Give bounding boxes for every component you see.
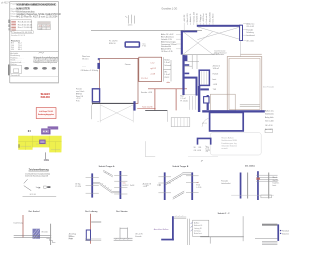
- core wall blue stub 2: [185, 73, 190, 75]
- D3 hatch: [115, 238, 129, 240]
- key plan leader line: [45, 152, 47, 159]
- faint rule under lintel: [188, 156, 218, 158]
- stamp block d: [11, 29, 16, 31]
- D2 left notes: [69, 232, 76, 240]
- svg-text:3.8: 3.8: [47, 26, 50, 28]
- svg-text:201: 201: [198, 147, 201, 149]
- svg-text:UG: UG: [11, 49, 14, 51]
- legend rect filled: [47, 186, 50, 188]
- D5 stub: [209, 237, 211, 244]
- south wall blue long: [202, 110, 265, 112]
- svg-text:+2.12: +2.12: [206, 150, 210, 152]
- D3 column: [120, 228, 128, 239]
- svg-text:VS 12: VS 12: [164, 77, 169, 79]
- middle divider red left: [154, 89, 156, 111]
- east room top line: [240, 53, 261, 55]
- terrace diagonal brace 4: [183, 32, 212, 54]
- svg-text:GK 12.5: GK 12.5: [82, 59, 88, 61]
- D6 bullet notes: [280, 230, 290, 235]
- svg-text:D=18: D=18: [130, 185, 134, 187]
- key plan purple roof bar: [48, 126, 59, 129]
- signature squiggle: [39, 52, 44, 53]
- svg-text:12.4: 12.4: [39, 26, 43, 28]
- middle divider red top: [148, 88, 187, 90]
- D6 floor line: [255, 238, 277, 240]
- index table: [38, 22, 51, 30]
- svg-text:Blech: Blech: [273, 177, 277, 179]
- key plan left tick: [18, 144, 20, 148]
- svg-text:90: 90: [194, 147, 196, 149]
- D5 ground line: [200, 236, 244, 238]
- corridor stair treads: [190, 96, 196, 110]
- stair B wall right blue: [191, 172, 193, 200]
- legend bottom rule: [23, 195, 57, 197]
- terrace floor line: [183, 54, 215, 56]
- D4 right wall: [188, 219, 190, 245]
- svg-text:Daemm.: Daemm.: [273, 182, 280, 184]
- svg-text:Fassade: Fassade: [221, 181, 228, 183]
- purple box inner: [42, 130, 49, 134]
- stamp block b: [11, 24, 16, 26]
- D2 wall red: [90, 214, 92, 244]
- svg-text:NEUBAU EINFAMILIENHAUS MIT EIN: NEUBAU EINFAMILIENHAUS MIT EINLIEGERWOHN…: [16, 3, 56, 6]
- door swing: [202, 118, 209, 126]
- svg-text:T 09: T 09: [213, 89, 216, 91]
- stair B lower flight: [173, 191, 184, 199]
- hall wall blue horizontal: [184, 77, 196, 79]
- center partitions: [163, 57, 171, 81]
- bottom divider: [10, 76, 59, 78]
- room 1 outline: [100, 58, 139, 103]
- window element blue: [125, 42, 139, 47]
- terrace diagonal brace 3: [183, 32, 212, 54]
- detail C wall 1 gray: [247, 173, 249, 199]
- callout side note: [205, 146, 208, 153]
- svg-text:OK +3.16: OK +3.16: [265, 125, 272, 127]
- D4 hatch above: [175, 215, 183, 217]
- key plan internal lines: [18, 136, 61, 153]
- detail C wall 2 gray: [268, 173, 270, 199]
- tiny flag: [201, 160, 203, 161]
- title block frame: [10, 2, 59, 83]
- notes box rows: [194, 222, 203, 235]
- svg-text:2.1 m2: 2.1 m2: [180, 98, 185, 100]
- svg-text:n. 12: n. 12: [150, 62, 154, 64]
- svg-text:Hinweis Balkon:: Hinweis Balkon:: [221, 138, 234, 140]
- red approval box: [36, 108, 56, 119]
- top annotation vertical labels: [184, 12, 215, 22]
- detail C roof lines: [256, 175, 277, 181]
- stair B lower ticks: [175, 193, 182, 198]
- bay window blue: [92, 89, 99, 102]
- svg-text:Konsole: Konsole: [135, 236, 141, 238]
- D2 bottom slab: [85, 239, 101, 241]
- stair A stringer ticks: [102, 183, 111, 190]
- svg-text:+3.18: +3.18: [150, 74, 154, 76]
- right annotation leaders: [243, 24, 246, 41]
- svg-text:FT 01: FT 01: [202, 123, 207, 125]
- flat note box: [12, 31, 34, 34]
- legend rect outline: [44, 186, 47, 188]
- stair B landing ticks: [158, 176, 198, 193]
- svg-text:x: x: [98, 121, 99, 123]
- notes box: [193, 220, 209, 236]
- lintel detail blue U: [198, 138, 211, 144]
- stair wall blue lower: [198, 86, 200, 112]
- stray tick: [146, 184, 149, 186]
- D5 right wall: [242, 216, 244, 241]
- svg-text:B 14: B 14: [196, 185, 200, 187]
- svg-text:+3.18: +3.18: [213, 84, 217, 86]
- detail C right text: [273, 177, 280, 187]
- key plan mark dots: [28, 130, 29, 131]
- svg-text:+2.12: +2.12: [76, 98, 80, 100]
- svg-text:F 05: F 05: [76, 101, 80, 103]
- stair A landing ticks: [86, 175, 128, 194]
- center annotations: [164, 58, 171, 79]
- svg-text:UK +2.95: UK +2.95: [135, 233, 142, 235]
- svg-text:OK 0.00: OK 0.00: [41, 231, 47, 233]
- mid room texts: [180, 95, 187, 102]
- svg-text:Daemmung 120mm: Daemmung 120mm: [161, 44, 177, 46]
- title block shadow: [10, 82, 59, 84]
- stamp block c: [11, 27, 16, 29]
- plan key box: [11, 65, 22, 73]
- left upper annotations: [81, 56, 98, 72]
- detail D6 top box: [261, 195, 272, 198]
- south wall dark: [92, 102, 134, 104]
- svg-text:HLZ 12: HLZ 12: [123, 185, 129, 187]
- plan key inner box: [13, 69, 18, 73]
- purple box dots: [43, 131, 44, 132]
- mid south wall: [145, 110, 167, 112]
- dimension ticks: [125, 15, 134, 24]
- stair A right notes: [123, 182, 135, 187]
- svg-text:Gef.2%: Gef.2%: [273, 180, 279, 182]
- stamp ovals: [24, 67, 56, 70]
- stair B arrow: [157, 184, 161, 186]
- svg-text:Holzbau . . . . .: Holzbau . . . . .: [10, 57, 23, 59]
- detail C left text: [221, 181, 231, 186]
- svg-text:+6.42 OK: +6.42 OK: [184, 14, 186, 22]
- D4 blue L vertical: [172, 216, 174, 240]
- D1 wall red: [22, 215, 24, 238]
- svg-text:14.6 m2: 14.6 m2: [213, 68, 219, 70]
- key plan small purple inner box: [39, 140, 45, 144]
- right margin box: [265, 130, 273, 133]
- terrace wall top blue: [197, 25, 242, 27]
- terrace diagonal brace 2: [197, 27, 240, 40]
- top annotation leaders: [184, 23, 213, 31]
- annotation column rows: [161, 33, 177, 53]
- mini list rows: [11, 43, 23, 52]
- svg-text:F 05: F 05: [69, 239, 73, 241]
- svg-text:2-lagig ge: 2-lagig ge: [200, 14, 202, 22]
- stair wall blue corner: [200, 88, 209, 90]
- svg-text:F 02: F 02: [142, 46, 146, 48]
- east inner room: [210, 94, 235, 110]
- legend symbol chevron upper: [24, 179, 28, 183]
- svg-text:124.5: 124.5: [128, 25, 133, 27]
- D4 blue L horizontal: [161, 239, 174, 241]
- divider line: [10, 50, 59, 52]
- stair treads: [202, 71, 207, 84]
- middle divider red right: [175, 89, 177, 111]
- room 2 outline: [139, 57, 162, 81]
- D4 left note arrow: [135, 233, 142, 238]
- svg-text:Balkon neu: Balkon neu: [265, 110, 274, 112]
- detail C base rule: [231, 194, 274, 196]
- svg-text:Wand neu: Wand neu: [82, 56, 90, 58]
- balcony blue rect: [210, 112, 244, 130]
- svg-text:neu 3-fach: neu 3-fach: [76, 91, 84, 93]
- stair B upper ticks: [169, 176, 181, 183]
- key plan gray details: [21, 144, 61, 150]
- svg-text:DG: DG: [11, 47, 14, 49]
- svg-text:OG: OG: [11, 45, 15, 47]
- svg-text:Daemmung: Daemmung: [14, 222, 23, 224]
- stair A mid landing: [93, 183, 100, 184]
- core wall blue stub 1: [185, 64, 190, 66]
- svg-text:aussen: aussen: [69, 236, 75, 238]
- D4 top slab: [174, 217, 186, 218]
- terrace wall right hollow: [240, 25, 243, 40]
- core wall blue vertical: [182, 55, 184, 95]
- stair B left note: [143, 182, 152, 188]
- east room inner face: [229, 58, 260, 109]
- wall blue tick top-left: [98, 58, 100, 60]
- D3 base slab: [114, 238, 133, 240]
- svg-text:1.OG: 1.OG: [44, 160, 50, 162]
- D1 slab lines: [14, 235, 52, 237]
- red leader line mid: [137, 107, 155, 109]
- bay annotations: [76, 88, 84, 103]
- east annotations: [213, 53, 225, 91]
- svg-text:044: 044: [39, 28, 42, 30]
- D6 slab lines: [262, 241, 277, 244]
- stair B right notes: [196, 181, 201, 189]
- svg-text:Gefaelle 1.5%: Gefaelle 1.5%: [161, 39, 172, 41]
- D1 column blue: [33, 229, 41, 239]
- below-terrace wall cluster blue: [184, 55, 187, 61]
- lower stair hatch lines: [174, 118, 187, 127]
- plan leader to details: [145, 141, 155, 156]
- lintel texts: [194, 147, 210, 152]
- svg-text:Handlauf: Handlauf: [282, 231, 290, 233]
- stair B wall left blue: [164, 172, 166, 200]
- notes box blue hatch: [191, 222, 193, 231]
- stair A lower landing: [112, 191, 119, 192]
- svg-text:Bad: Bad: [180, 95, 183, 97]
- svg-text:Daemm. 120: Daemm. 120: [193, 12, 195, 22]
- svg-text:EG: EG: [11, 43, 14, 45]
- svg-text:Pl. 15x15: Pl. 15x15: [180, 101, 187, 103]
- stair A wall left blue: [91, 173, 93, 197]
- svg-text:neu: neu: [142, 43, 145, 45]
- lower stair hatch box: [171, 118, 190, 127]
- svg-text:Flaechen: Flaechen: [11, 40, 21, 42]
- left list rows: [10, 54, 25, 66]
- svg-text:Gel. h=100: Gel. h=100: [265, 120, 274, 122]
- svg-text:17.2/26: 17.2/26: [75, 186, 81, 188]
- margin stamp marks: [8, 20, 9, 23]
- stair B upper flight: [166, 173, 192, 185]
- annotation leaders: [176, 34, 181, 48]
- callout box rounded: [210, 133, 261, 155]
- detail C red mark: [256, 178, 260, 180]
- svg-text:+3.18: +3.18: [143, 186, 147, 188]
- south wall tick left: [91, 102, 93, 104]
- stair room blue: [199, 70, 209, 85]
- callout text rows: [221, 138, 237, 150]
- blue wall corner mid: [133, 101, 135, 110]
- svg-text:OK +3.18: OK +3.18: [194, 150, 201, 152]
- svg-text:Schalung: Schalung: [246, 32, 253, 34]
- svg-text:1.6 m2: 1.6 m2: [164, 74, 169, 76]
- D1 steps: [46, 238, 55, 242]
- D1 side note: [69, 236, 73, 241]
- svg-text:Gefaelle 15: Gefaelle 15: [197, 13, 199, 22]
- margin strip text: [8, 65, 9, 76]
- svg-text:7.2: 7.2: [43, 26, 46, 28]
- shaft blue small rect: [204, 97, 209, 103]
- revision sub-box: [11, 20, 32, 32]
- D6 blue post: [277, 224, 279, 241]
- legend symbol chevron lower: [24, 186, 31, 191]
- below-terrace partitions: [185, 55, 200, 69]
- D1 right wall: [50, 224, 52, 245]
- D1 column hatch: [33, 229, 40, 238]
- stamp block a: [11, 21, 16, 23]
- wall blue chunk left: [97, 63, 100, 69]
- terrace diagonal brace 1: [197, 27, 240, 40]
- svg-text:Rev.B 02.06.04: Rev.B 02.06.04: [18, 24, 33, 26]
- detail C wall 2 blue: [257, 171, 259, 200]
- svg-text:BRH 45: BRH 45: [76, 93, 82, 95]
- room2 red notes: [150, 62, 155, 75]
- svg-text:vgl. D2: vgl. D2: [150, 68, 155, 70]
- stair A upper flight: [103, 170, 113, 177]
- right annotation rows: [246, 22, 254, 42]
- svg-text:- - - -: - - - -: [82, 66, 86, 68]
- corridor line: [184, 94, 199, 96]
- key plan yellow highlight: [18, 136, 61, 153]
- east room outline: [227, 57, 262, 112]
- dense note paragraph: [32, 56, 58, 64]
- right margin annotations: [265, 110, 275, 131]
- hall wall blue vertical: [196, 77, 198, 96]
- detail C wall 1 blue: [240, 173, 242, 199]
- terrace right wall drop line: [240, 41, 242, 57]
- svg-text:1.8 m2: 1.8 m2: [164, 62, 169, 64]
- east top wall gray pair: [240, 104, 260, 106]
- svg-text:Wohnhausneubau: Wohnhausneubau: [16, 11, 35, 13]
- shaft wall blue bar: [207, 95, 209, 110]
- index table header fill: [38, 22, 51, 25]
- D6 cap bar: [262, 224, 277, 226]
- svg-text:M 1:50: M 1:50: [30, 194, 37, 196]
- svg-text:Blech 2.0%: Blech 2.0%: [187, 13, 189, 22]
- svg-text:2.5 / 2.4: 2.5 / 2.4: [141, 78, 147, 80]
- terrace wall step blue: [181, 31, 197, 33]
- D2 blue insert: [86, 230, 90, 240]
- stair A wall right blue: [120, 171, 122, 199]
- svg-text:Belag Holz: Belag Holz: [265, 117, 274, 119]
- svg-text:h 2.30: h 2.30: [196, 187, 201, 189]
- legend arrow: [36, 187, 40, 188]
- terrace wall left blue: [181, 31, 183, 55]
- stair A left note: [75, 183, 81, 189]
- svg-text:BRH 90: BRH 90: [109, 43, 116, 45]
- boundary line: [91, 29, 202, 31]
- deck edge left: [91, 105, 93, 119]
- svg-text:Rev.C 14.06.04: Rev.C 14.06.04: [18, 27, 33, 29]
- lower stair leader: [166, 111, 168, 122]
- svg-text:UK +3.05: UK +3.05: [246, 40, 253, 42]
- svg-text:OK +6.42: OK +6.42: [246, 26, 253, 28]
- stair A stringer: [100, 183, 112, 193]
- D2 top slab: [91, 221, 101, 222]
- svg-text:1.20: 1.20: [206, 147, 209, 149]
- svg-text:F1 120/90: F1 120/90: [109, 41, 117, 43]
- deck outline: [100, 105, 133, 123]
- svg-text:Fassade: Fassade: [246, 29, 253, 31]
- key plan purple box: [41, 128, 50, 134]
- svg-text:neu: neu: [123, 182, 126, 184]
- svg-text:M.MUSTER: M.MUSTER: [16, 8, 30, 11]
